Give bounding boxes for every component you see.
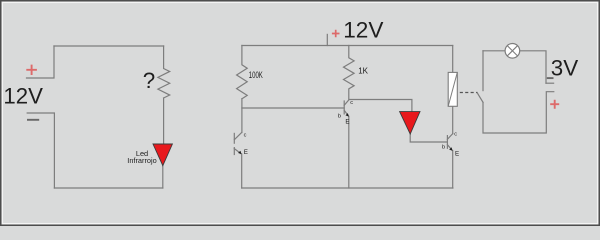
relay K1 diagonal [448,72,457,106]
wire Q1 emitter down [241,154,243,188]
svg-text:3V: 3V [551,56,578,81]
wire bottom rail left circuit [54,187,162,189]
transistor Q2 emitter diagonal [344,110,348,116]
svg-text:c: c [244,133,247,139]
battery V1 bottom plate wire [27,113,54,188]
battery V2 minus label [547,77,554,79]
relay K1 coil [448,72,457,106]
wire lamp right [520,51,546,83]
resistor R1 100K [237,46,248,99]
svg-text:b: b [442,144,445,150]
battery V1 12V top plate wire [27,46,55,78]
lamp L1 [505,44,520,59]
wire Q3 collector to relay [452,106,454,133]
wire base node to Q2 [242,107,344,109]
transistor Q3 base bar [446,136,448,149]
wire bottom rail middle circuit [242,187,453,189]
transistor Q3 collector diagonal [447,134,452,140]
wire Q3 emitter down [452,151,454,188]
transistor Q2 base bar [343,101,345,114]
LED D1 red triangle [153,144,172,166]
svg-text:E: E [455,151,459,158]
battery V1 minus label [27,119,39,121]
transistor Q1 base bar upper [233,133,235,143]
svg-text:Infrarrojo: Infrarrojo [127,156,156,165]
wire collector node to LED2 [349,100,412,112]
lamp L1 cross [507,46,517,56]
wire resistor to LED1 [163,98,165,144]
resistor R? zigzag [158,46,170,98]
svg-text:12V: 12V [3,83,43,108]
transistor Q1 emitter diagonal [234,149,241,154]
node +12V tick [326,34,328,45]
resistor R2 1K [344,46,355,100]
wire 100K to Q1 collector [241,99,243,133]
svg-text:1K: 1K [358,67,368,76]
wire lamp left [483,50,505,52]
svg-text:E: E [244,149,248,156]
svg-text:12V: 12V [343,18,383,43]
svg-text:c: c [350,100,353,106]
svg-text:100K: 100K [249,70,263,81]
svg-text:b: b [338,113,341,119]
transistor Q1 collector diagonal [234,133,241,140]
svg-text:c: c [454,131,457,137]
LED D2 red triangle [400,112,420,134]
emitter arrow Q2 [346,113,349,116]
emitter arrow Q1 [238,151,241,154]
transistor Q2 collector diagonal [344,100,349,106]
emitter arrow Q3 [449,147,452,150]
wire top rail left circuit [54,45,164,47]
transistor Q3 emitter diagonal [447,145,452,151]
battery V2 plus label [550,100,559,109]
wire LED1 cathode down [162,166,164,188]
wire LED2 to Q3 base [410,134,447,142]
battery V2 plus plate wire [483,92,554,133]
battery V1 plus label [26,65,37,75]
wire top rail middle circuit [242,45,453,47]
svg-text:?: ? [143,68,155,93]
wire Q2 emitter down [348,116,350,188]
node +12V plus label [332,30,340,38]
transistor Q1 base bar lower [233,148,235,155]
switch arm [477,93,483,102]
relay K1 linkage dashed [460,92,478,94]
wire switch fixed contact [482,51,484,91]
wire relay top to rail [452,46,454,73]
svg-text:E: E [345,119,349,126]
battery V2 minus plate [546,82,554,84]
